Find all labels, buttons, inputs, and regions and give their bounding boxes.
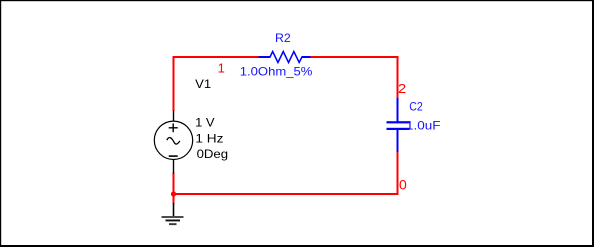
capacitor C2 — [387, 98, 410, 152]
svg-text:1: 1 — [218, 61, 225, 76]
wire: top horizontal left segment — [173, 56, 260, 58]
svg-text:0: 0 — [399, 176, 407, 192]
svg-text:C2: C2 — [409, 100, 423, 114]
junction at ground node — [171, 191, 176, 196]
resistor R2 — [259, 52, 311, 63]
wire: left vertical (node 1) — [173, 56, 175, 111]
svg-text:V1: V1 — [195, 77, 211, 91]
ground — [162, 203, 184, 225]
wire: right vertical lower (node 0) — [397, 152, 399, 196]
source V1 (AC voltage source) — [154, 111, 192, 174]
wire: left lower vertical to ground — [173, 173, 175, 204]
wire: top horizontal right segment — [311, 56, 399, 58]
svg-text:1 V: 1 V — [195, 116, 215, 130]
wire: right vertical upper (node 2) — [397, 56, 399, 99]
svg-text:R2: R2 — [275, 31, 291, 45]
svg-text:0Deg: 0Deg — [197, 147, 229, 161]
svg-text:2: 2 — [398, 81, 406, 96]
svg-text:1.0Ohm_5%: 1.0Ohm_5% — [240, 65, 313, 79]
svg-text:1.0uF: 1.0uF — [406, 118, 441, 132]
wire: bottom horizontal — [173, 193, 399, 195]
svg-text:1 Hz: 1 Hz — [195, 131, 223, 145]
